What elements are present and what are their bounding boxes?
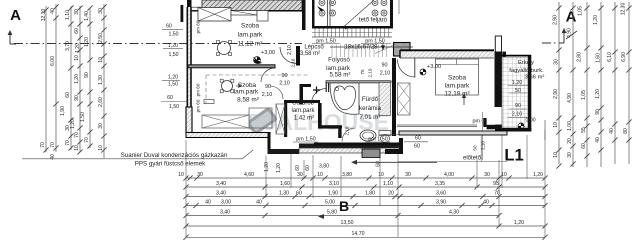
svg-text:A: A (566, 9, 577, 26)
svg-text:1,42 m²: 1,42 m² (294, 116, 314, 122)
svg-text:1,20: 1,20 (74, 74, 80, 84)
svg-text:1,00: 1,00 (567, 121, 573, 131)
svg-text:6,90: 6,90 (621, 52, 627, 62)
svg-text:lam.park: lam.park (445, 83, 470, 90)
svg-text:10: 10 (317, 172, 323, 178)
bottom-left exterior wall (186, 107, 192, 133)
svg-text:90: 90 (282, 73, 288, 79)
svg-text:70: 70 (50, 142, 56, 148)
bath closet hatched (379, 83, 391, 116)
arrow to Szoba label (236, 85, 241, 88)
svg-text:0,00: 0,00 (526, 118, 536, 124)
svg-text:30: 30 (484, 172, 490, 178)
wall piece left of stairs (296, 46, 300, 65)
svg-text:40: 40 (595, 137, 601, 143)
svg-text:20: 20 (567, 138, 573, 144)
stairs (312, 36, 392, 38)
svg-text:4,30: 4,30 (449, 209, 459, 215)
svg-text:10: 10 (553, 152, 559, 158)
svg-text:90: 90 (84, 72, 90, 78)
wall step down center (268, 133, 271, 154)
door arc room 11,12 (280, 47, 297, 64)
svg-text:fagyálló burk.: fagyálló burk. (509, 68, 544, 74)
svg-text:1,90: 1,90 (60, 106, 66, 116)
svg-text:3,66 m²: 3,66 m² (525, 75, 545, 81)
svg-text:1,60: 1,60 (596, 53, 602, 63)
south wall gardrob/bath (299, 144, 401, 149)
elevation marker 0,00 balcony (518, 123, 524, 129)
stair walking line (330, 46, 413, 48)
svg-text:4,00: 4,00 (444, 172, 454, 178)
svg-text:40: 40 (50, 8, 56, 14)
svg-text:10: 10 (553, 122, 559, 128)
room 12,18 south line (397, 124, 477, 126)
svg-text:60: 60 (305, 165, 311, 171)
svg-text:2,10: 2,10 (287, 45, 293, 55)
svg-text:80: 80 (623, 128, 629, 134)
svg-text:Fürdő: Fürdő (362, 96, 379, 103)
svg-text:1,05: 1,05 (581, 90, 587, 100)
leader line (22, 158, 242, 160)
bath door from corridor (312, 89, 327, 104)
svg-text:3,40: 3,40 (216, 181, 226, 187)
svg-text:lam.park: lam.park (238, 32, 263, 39)
bottom wall left section (186, 133, 270, 138)
svg-text:1,50: 1,50 (168, 82, 178, 88)
svg-text:1,20: 1,20 (276, 163, 282, 173)
svg-text:60: 60 (338, 128, 343, 134)
svg-text:60: 60 (74, 28, 80, 34)
svg-text:60: 60 (581, 143, 587, 149)
section marker A right (563, 31, 565, 43)
balcony door SE steps (483, 118, 486, 127)
svg-text:1,50: 1,50 (80, 112, 86, 122)
dashed attic line room 8,58 (206, 74, 310, 76)
svg-text:Lépcső: Lépcső (304, 45, 324, 51)
roof window circles (319, 0, 325, 6)
svg-text:70: 70 (40, 142, 46, 148)
svg-text:2,90: 2,90 (553, 89, 559, 99)
svg-text:90: 90 (265, 84, 271, 90)
svg-text:2,10: 2,10 (291, 58, 296, 67)
svg-text:Folyosó: Folyosó (328, 57, 350, 64)
svg-text:pm 60: pm 60 (196, 20, 201, 33)
svg-text:1,20: 1,20 (595, 89, 601, 99)
svg-text:3,80: 3,80 (319, 164, 329, 170)
table room 8,58 (222, 81, 233, 92)
svg-text:6,00: 6,00 (50, 56, 56, 66)
right dimension chains (544, 120, 546, 140)
svg-text:12,18 m²: 12,18 m² (444, 91, 469, 98)
watermark logo tilted (246, 106, 278, 135)
svg-text:1,60: 1,60 (280, 181, 290, 187)
bath niche L wall (318, 125, 342, 128)
terrace X below left section (202, 115, 249, 128)
svg-text:1,40: 1,40 (84, 11, 90, 21)
small desk room 8,58 (204, 100, 214, 104)
small arrow in room 12,18 (463, 96, 465, 105)
left dimension chains (45, 6, 47, 152)
svg-text:1,20: 1,20 (514, 220, 524, 226)
svg-text:2,50: 2,50 (98, 33, 104, 43)
svg-text:pm 1,50: pm 1,50 (296, 137, 315, 143)
svg-text:40: 40 (483, 199, 489, 205)
svg-text:60: 60 (166, 24, 172, 30)
bed room 12,18 (436, 59, 479, 95)
svg-text:30: 30 (74, 9, 80, 15)
svg-text:7,01 m²: 7,01 m² (360, 114, 381, 121)
svg-text:8,58 m²: 8,58 m² (237, 97, 259, 104)
svg-text:40: 40 (609, 128, 615, 134)
svg-text:1,90: 1,90 (328, 190, 338, 196)
svg-text:2,10: 2,10 (512, 112, 523, 118)
svg-text:90: 90 (382, 63, 388, 69)
svg-text:pm 1,50: pm 1,50 (368, 137, 387, 143)
svg-text:10: 10 (98, 57, 104, 63)
left exterior wall (187, 7, 191, 108)
gardrob right wall (318, 103, 322, 126)
svg-text:60: 60 (295, 165, 301, 171)
svg-text:3,00: 3,00 (221, 199, 231, 205)
right exterior wall (495, 52, 503, 108)
bath top wall (326, 81, 391, 83)
balcony tiles (502, 57, 528, 128)
table room 11,12 (218, 42, 231, 55)
svg-text:pm 60: pm 60 (196, 83, 201, 96)
svg-text:20: 20 (388, 190, 394, 196)
bath left wall (325, 81, 327, 92)
svg-text:Suanier Duval kondenzációs gáz: Suanier Duval kondenzációs gázkazán (121, 152, 228, 159)
elotet canopy slab (399, 131, 507, 135)
svg-text:60: 60 (167, 95, 173, 101)
svg-text:1,20: 1,20 (593, 15, 599, 25)
boundary line x=401 (398, 0, 400, 14)
wardrobe X right room (398, 83, 411, 115)
svg-text:50: 50 (473, 145, 478, 151)
svg-text:1,20: 1,20 (264, 162, 270, 172)
section line A-A (14, 43, 302, 45)
bottom extension lines (185, 140, 187, 238)
svg-text:14,70: 14,70 (352, 231, 365, 237)
svg-text:1,20: 1,20 (84, 37, 90, 47)
svg-text:12,30: 12,30 (621, 3, 627, 16)
wc (379, 131, 391, 136)
corridor south wall stub (300, 84, 311, 87)
svg-text:Szoba: Szoba (241, 23, 260, 30)
svg-text:3,35: 3,35 (435, 181, 445, 187)
svg-text:10: 10 (98, 145, 104, 151)
corner bathtub (330, 83, 359, 114)
svg-text:1,20: 1,20 (70, 119, 76, 129)
svg-text:30: 30 (98, 123, 104, 129)
bath door arc (342, 128, 356, 142)
svg-text:1,20: 1,20 (168, 75, 178, 81)
svg-text:Gardrób: Gardrób (292, 101, 315, 107)
svg-text:40: 40 (256, 199, 262, 205)
svg-text:60: 60 (65, 92, 71, 98)
svg-text:A: A (10, 7, 21, 24)
arrow in roof room (317, 6, 324, 12)
arrow before 5,80 (318, 214, 324, 219)
door corridor to room 12,18 (414, 58, 416, 78)
svg-text:1,30: 1,30 (98, 75, 104, 85)
svg-text:30: 30 (297, 172, 303, 178)
svg-text:90: 90 (595, 109, 601, 115)
svg-text:1,80: 1,80 (365, 190, 375, 196)
svg-text:B: B (339, 198, 349, 214)
svg-text:3,60: 3,60 (436, 190, 446, 196)
svg-text:3,58 m²: 3,58 m² (300, 51, 320, 57)
svg-text:1,20: 1,20 (75, 43, 81, 53)
door arc room 8,58 (261, 68, 275, 82)
porch pillar block (362, 149, 380, 158)
svg-text:1,30: 1,30 (279, 190, 289, 196)
svg-text:3,80: 3,80 (342, 172, 352, 178)
svg-text:2,90: 2,90 (553, 15, 559, 25)
bath right wall / room left wall (392, 58, 396, 136)
terrace SW corner wall (385, 149, 403, 154)
corridor west wall piece (300, 84, 304, 105)
svg-text:95: 95 (493, 181, 499, 187)
svg-text:10: 10 (178, 172, 184, 178)
svg-text:1,10: 1,10 (383, 181, 393, 187)
svg-text:5,80: 5,80 (327, 209, 337, 215)
svg-text:2,80: 2,80 (577, 52, 583, 62)
svg-text:+3,00: +3,00 (261, 50, 275, 56)
svg-text:70: 70 (65, 140, 71, 146)
wardrobe X room 8,58 (276, 104, 285, 134)
chimney block (394, 43, 411, 57)
svg-text:L1: L1 (504, 147, 523, 165)
section marker A left (9, 33, 11, 44)
roof access room (302, 0, 306, 30)
svg-text:előtető: előtető (463, 156, 482, 162)
washbasin (360, 130, 376, 141)
svg-text:lam.park: lam.park (234, 89, 259, 96)
svg-text:1,50: 1,50 (169, 104, 179, 110)
svg-text:70: 70 (84, 137, 90, 143)
NW corner wall pieces (181, 5, 184, 22)
svg-text:60: 60 (376, 161, 382, 167)
svg-text:5,58 m²: 5,58 m² (330, 72, 351, 79)
svg-text:Erkély: Erkély (518, 60, 534, 66)
svg-text:11,12 m²: 11,12 m² (238, 41, 263, 48)
lower stair flight treads (331, 45, 333, 58)
svg-text:30: 30 (567, 152, 573, 158)
svg-text:1,20: 1,20 (168, 43, 178, 49)
bottom dimension chains (186, 177, 545, 179)
svg-text:+3,00: +3,00 (427, 64, 441, 70)
svg-text:55: 55 (581, 127, 587, 133)
svg-text:30: 30 (98, 8, 104, 14)
balcony outer walls (528, 55, 531, 132)
svg-text:kerámia: kerámia (359, 105, 382, 112)
svg-text:pm 60: pm 60 (196, 99, 201, 112)
svg-text:10: 10 (74, 55, 80, 61)
svg-text:3,10: 3,10 (329, 181, 339, 187)
svg-text:3,40: 3,40 (220, 209, 230, 215)
svg-text:40: 40 (205, 199, 211, 205)
svg-text:30: 30 (554, 59, 560, 65)
svg-text:13,50: 13,50 (341, 220, 354, 226)
svg-text:1,10: 1,10 (65, 10, 71, 20)
svg-text:60: 60 (414, 144, 420, 150)
svg-text:60: 60 (415, 136, 421, 142)
svg-text:2,10: 2,10 (481, 141, 486, 150)
svg-text:1,50: 1,50 (168, 32, 178, 38)
right section top wall hatched (400, 50, 494, 58)
svg-text:12,30: 12,30 (41, 9, 47, 22)
svg-text:60: 60 (296, 190, 302, 196)
svg-text:90: 90 (515, 103, 521, 109)
svg-text:2,10: 2,10 (380, 71, 391, 77)
svg-text:2,10: 2,10 (262, 92, 273, 98)
svg-text:90: 90 (74, 95, 80, 101)
svg-text:4,90: 4,90 (567, 93, 573, 103)
wardrobe top-left with X (198, 8, 231, 22)
gardrob walls (284, 100, 287, 137)
svg-text:10: 10 (378, 172, 384, 178)
svg-text:2,60: 2,60 (98, 97, 104, 107)
furniture rect room 8,58 SE (249, 108, 272, 128)
svg-text:5,00: 5,00 (325, 199, 335, 205)
svg-text:70: 70 (74, 132, 80, 138)
svg-text:2,10: 2,10 (279, 81, 290, 87)
svg-text:pm 0: pm 0 (473, 119, 485, 125)
svg-text:18x16,67/28: 18x16,67/28 (344, 45, 378, 51)
svg-text:tető feljáró: tető feljáró (359, 18, 388, 24)
svg-text:PPS gyári füstcső elemek: PPS gyári füstcső elemek (135, 161, 206, 168)
svg-text:10: 10 (74, 145, 80, 151)
low south band (268, 149, 300, 154)
svg-text:3,90: 3,90 (436, 199, 446, 205)
hatched wall top (202, 0, 302, 11)
svg-text:75: 75 (360, 69, 365, 75)
svg-text:4,90: 4,90 (567, 28, 573, 38)
svg-text:4,60: 4,60 (244, 172, 254, 178)
arrow black top 8,58 (253, 57, 262, 64)
top wall edge (187, 10, 302, 12)
svg-text:1,20: 1,20 (533, 172, 543, 178)
wall between rooms 11,12 / 8,58 (188, 65, 275, 68)
svg-text:6,10: 6,10 (607, 52, 613, 62)
svg-text:3,70: 3,70 (65, 41, 71, 51)
svg-text:Szoba: Szoba (448, 75, 467, 82)
svg-text:1,05: 1,05 (578, 6, 584, 16)
svg-text:1,50: 1,50 (168, 52, 178, 58)
svg-text:2,10: 2,10 (368, 68, 373, 77)
svg-text:30: 30 (405, 172, 411, 178)
bath bottom wall (314, 143, 401, 146)
svg-text:3,40: 3,40 (216, 190, 226, 196)
svg-text:lam.park: lam.park (291, 108, 315, 114)
